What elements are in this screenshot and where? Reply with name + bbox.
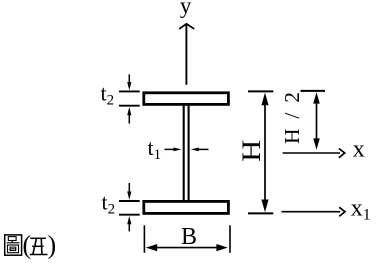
H dimension bottom tick [248, 212, 273, 214]
B dimension arrow [146, 244, 228, 251]
t2 bottom upper arrow [127, 183, 131, 200]
H/2 dimension tick [301, 90, 326, 92]
x axis [283, 149, 345, 158]
H dimension top tick [248, 90, 273, 92]
y axis [179, 24, 194, 85]
svg-text:B: B [181, 224, 197, 250]
t2 bottom lower arrow [127, 216, 131, 231]
B dimension right extension line [229, 225, 231, 253]
H dimension arrow [261, 93, 268, 213]
svg-text:x1: x1 [351, 195, 371, 223]
web right line [188, 106, 190, 201]
B dimension left extension line [143, 225, 145, 253]
svg-text:H / 2: H / 2 [280, 92, 304, 144]
svg-text:t1: t1 [148, 135, 162, 163]
t2 top lower arrow [127, 107, 131, 124]
H/2 dimension arrow [313, 92, 320, 150]
t1 right arrow [191, 148, 209, 152]
web left line [183, 106, 185, 201]
t2 top upper arrow [127, 74, 131, 90]
bottom flange [144, 201, 229, 213]
t2 bottom lower tick [119, 214, 140, 216]
x1 axis [282, 207, 346, 216]
figure caption: character 五 [30, 238, 48, 254]
t2 top upper tick [119, 90, 140, 92]
t1 left arrow [165, 148, 182, 152]
svg-text:H: H [238, 140, 266, 162]
svg-text:): ) [48, 231, 57, 260]
t2 bottom upper tick [119, 200, 140, 202]
top flange [144, 93, 229, 105]
svg-text:t2: t2 [102, 190, 116, 218]
t2 top lower tick [119, 105, 140, 107]
svg-text:x: x [353, 137, 365, 163]
figure caption: character 圖 [5, 235, 22, 255]
svg-text:y: y [180, 0, 192, 18]
svg-text:t2: t2 [101, 81, 115, 109]
